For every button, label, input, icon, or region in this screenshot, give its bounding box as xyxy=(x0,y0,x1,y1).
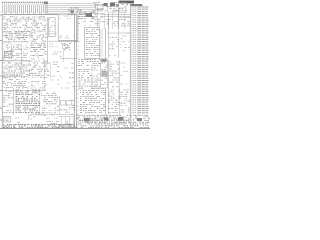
labels above U3 xyxy=(83,12,96,14)
sparse right strip xyxy=(121,62,126,64)
wire vertical A xyxy=(108,15,110,59)
sparse specks xyxy=(64,67,73,69)
top-right components xyxy=(94,2,127,4)
bottom hatch ticks xyxy=(79,119,133,124)
bottom right dense band xyxy=(76,114,148,116)
table header xyxy=(131,4,143,6)
bottom strip boxes xyxy=(56,124,60,127)
component cluster T1 xyxy=(71,7,79,9)
table rows col2 xyxy=(138,6,149,8)
center-right list xyxy=(105,28,107,115)
marks left of cluster xyxy=(50,43,53,45)
left component group xyxy=(4,31,31,33)
bottom wires left xyxy=(30,114,75,116)
dense block xyxy=(16,90,41,92)
clusters right of bus xyxy=(79,59,101,61)
IC U2 xyxy=(48,18,55,37)
IC U1 xyxy=(58,15,78,41)
crossing wire xyxy=(107,32,131,34)
bottom label strip xyxy=(3,123,73,125)
wire stubs down xyxy=(104,13,124,30)
dark title bar xyxy=(119,1,135,4)
left blotch layer xyxy=(5,16,45,18)
left mid group xyxy=(6,44,27,46)
cluster x52-60 y52 xyxy=(54,51,61,53)
U1 bottom pins xyxy=(60,40,76,42)
IC U3 xyxy=(84,28,86,59)
bottom border xyxy=(0,127,150,129)
relay column upper xyxy=(110,36,118,38)
top terminal labels xyxy=(2,1,47,3)
left rows y77-89 xyxy=(4,77,25,79)
sparse marks xyxy=(125,32,129,34)
left margin line xyxy=(1,15,3,128)
bottom left component xyxy=(4,117,11,123)
label end blob xyxy=(44,2,48,5)
wire drops bottom xyxy=(62,116,74,124)
left edge ticks xyxy=(0,14,2,16)
vertical bus line 1 xyxy=(74,15,76,128)
component cluster below U1 xyxy=(61,43,71,45)
wire vertical B xyxy=(118,2,120,58)
top wire drops xyxy=(2,5,47,14)
bus labels xyxy=(72,63,74,65)
connector J2 xyxy=(101,59,108,89)
bus rail xyxy=(2,14,58,16)
vertical drop from wires xyxy=(96,3,98,27)
bottom mid cluster xyxy=(33,112,44,114)
dark cluster x4-12 y52 xyxy=(5,52,13,58)
horizontal wires top middle xyxy=(45,2,96,4)
left connector labels xyxy=(4,16,18,18)
wire-list table border xyxy=(129,4,131,128)
wires to right block xyxy=(100,14,131,16)
bus stubs xyxy=(76,18,79,122)
drop arrowheads xyxy=(2,12,48,13)
mid components y60 xyxy=(29,60,48,62)
vertical bus line 2 xyxy=(75,15,77,128)
marks x44-58 above strip xyxy=(51,112,56,114)
table rows col1 xyxy=(131,6,137,8)
mid column labels xyxy=(31,30,46,32)
left dense group y60 xyxy=(4,60,31,62)
specks x48-60 xyxy=(51,75,61,77)
relay column lower xyxy=(107,60,109,115)
U3 right pin ticks xyxy=(100,30,103,56)
relay boxes x60-72 y100 xyxy=(61,101,66,106)
cluster x40-58 y90 xyxy=(53,91,56,93)
narrow left list xyxy=(13,88,15,115)
